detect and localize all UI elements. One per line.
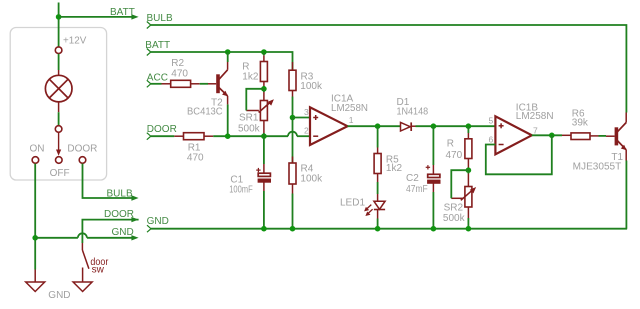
resistor R5 [374, 126, 381, 182]
node R5 top [375, 123, 381, 129]
wire IC1B feedback [486, 135, 552, 174]
node GND SR2 [466, 226, 472, 232]
svg-text:470: 470 [171, 69, 188, 80]
wire R6 to T1 base [590, 135, 615, 137]
node BATT top junction [56, 14, 62, 20]
node GND LED1 [375, 226, 381, 232]
wire BATT top vertical [58, 3, 60, 47]
wire IC1B output [532, 134, 562, 136]
svg-text:C2: C2 [406, 173, 419, 184]
wire GND bus [151, 228, 627, 230]
svg-text:BC413C: BC413C [187, 107, 223, 118]
node R470 / SR2 wiper [466, 167, 472, 173]
door switch S2 [82, 243, 89, 282]
diode D1 [401, 122, 416, 131]
switch contact DOOR [79, 157, 86, 164]
DOOR net connector [147, 133, 151, 140]
trimmer SR2 [451, 170, 476, 229]
wire R1 to op-amp pin2 with hop [204, 132, 310, 137]
resistor R6 [571, 133, 590, 140]
wire ACC to R2 [151, 83, 162, 85]
svg-text:100k: 100k [300, 81, 323, 92]
svg-text:ACC: ACC [147, 73, 168, 84]
capacitor C2 [426, 126, 441, 229]
svg-text:2: 2 [304, 126, 309, 136]
wire ON contact to ground [34, 164, 36, 270]
node GND R4 [290, 226, 296, 232]
resistor R1 [184, 133, 205, 140]
switch contact ON [32, 157, 39, 164]
svg-text:LM258N: LM258N [331, 103, 368, 114]
BATT net arrow [131, 14, 138, 19]
ground symbol door switch [73, 282, 92, 292]
node T2 emitter / DOOR [225, 133, 231, 139]
wire DOOR contact to BULB connector [83, 164, 133, 198]
node BATT/R 1k2 [261, 49, 267, 55]
node GND left junction [32, 235, 38, 241]
ACC net connector [147, 80, 151, 87]
GND net arrow left [131, 235, 138, 240]
door sw label [90, 257, 108, 275]
svg-text:GND: GND [147, 216, 169, 227]
svg-text:100mF: 100mF [229, 185, 253, 196]
node BATT/T2 collector [225, 49, 231, 55]
GND bus net connector [147, 225, 151, 232]
capacitor C1 [256, 136, 271, 229]
wire R2 to T2 base [191, 83, 217, 85]
resistor R 1k2 [260, 52, 267, 89]
svg-text:BATT: BATT [145, 40, 170, 51]
svg-text:500k: 500k [443, 213, 466, 224]
wire BATT top horizontal [59, 16, 133, 18]
node GND C2 [431, 226, 437, 232]
svg-text:GND: GND [112, 227, 134, 238]
wire SR2 wiper bracket [451, 170, 468, 198]
wire pin3 [293, 117, 311, 119]
svg-text:470: 470 [446, 150, 463, 161]
resistor R2 [171, 80, 191, 87]
BULB net arrow left [131, 195, 138, 200]
svg-text:3: 3 [304, 107, 309, 117]
svg-text:100k: 100k [300, 174, 323, 185]
svg-text:GND: GND [48, 290, 70, 301]
trimmer SR1 [246, 89, 274, 136]
svg-text:39k: 39k [572, 117, 589, 128]
transistor T1 [616, 113, 626, 161]
pin circle +12V [55, 47, 62, 54]
pin circle lamp bottom [55, 126, 62, 133]
svg-text:LED1: LED1 [340, 198, 365, 209]
node GND C1 [261, 226, 267, 232]
svg-text:ON: ON [30, 144, 45, 155]
wire SR1 wiper bracket [246, 89, 264, 111]
switch contact OFF [56, 157, 63, 164]
op-amp IC1A [310, 107, 348, 145]
BULB bus net connector [147, 22, 151, 29]
svg-text:BATT: BATT [110, 7, 135, 18]
svg-text:DOOR: DOOR [147, 124, 177, 135]
svg-text:R: R [447, 138, 454, 149]
svg-text:SR2: SR2 [444, 202, 464, 213]
wire T2 emitter to DOOR net [227, 104, 229, 136]
svg-text:500k: 500k [238, 123, 261, 134]
LED1 [364, 182, 385, 229]
svg-text:+12V: +12V [63, 36, 87, 47]
svg-text:1N4148: 1N4148 [397, 107, 429, 118]
ground symbol left [26, 270, 45, 292]
wire R3/R4 vertical [292, 118, 294, 164]
wire BATT bus [151, 52, 293, 70]
resistor R4 [289, 157, 296, 229]
BATT bus net connector [147, 49, 151, 56]
svg-text:BULB: BULB [147, 13, 173, 24]
wire GND left horizontal with hop [35, 233, 132, 238]
svg-text:7: 7 [533, 126, 538, 136]
svg-text:1: 1 [349, 115, 354, 125]
node SR1 bottom / C1 [261, 133, 267, 139]
op-amp IC1B [495, 116, 531, 154]
svg-text:BULB: BULB [107, 189, 133, 200]
wire pin to lamp [58, 54, 60, 75]
svg-text:MJE3055T: MJE3055T [573, 161, 622, 172]
svg-text:6: 6 [489, 134, 494, 144]
node R1k2 / SR1 wiper [261, 86, 267, 92]
lamp LA1 (bulb) [45, 75, 72, 102]
svg-text:47mF: 47mF [406, 184, 428, 195]
node C2 top [431, 123, 437, 129]
wire T1 emitter to GND bus [625, 161, 627, 229]
svg-text:470: 470 [187, 153, 204, 164]
svg-text:DOOR: DOOR [104, 209, 134, 220]
svg-text:SR1: SR1 [239, 112, 259, 123]
svg-text:5: 5 [489, 116, 494, 126]
svg-text:1k2: 1k2 [242, 71, 259, 82]
svg-text:sw: sw [92, 265, 105, 276]
svg-text:1k2: 1k2 [386, 163, 403, 174]
node IC1B output [549, 133, 555, 139]
enclosure box (car lamp unit) [10, 28, 106, 181]
transistor T2 [218, 62, 228, 104]
wire DOOR net left [82, 220, 138, 243]
node op-amp pin3 [290, 115, 296, 121]
svg-text:R2: R2 [171, 58, 184, 69]
wire lamp to pin [58, 102, 60, 126]
wire BULB bus [151, 25, 627, 113]
resistor R3 [289, 62, 296, 118]
switch S1 wiper arrow [56, 133, 61, 156]
wire IC1A output [348, 125, 401, 127]
DOOR net arrow left [131, 217, 138, 222]
svg-text:OFF: OFF [50, 168, 70, 179]
node R 470 top [466, 123, 472, 129]
resistor R 470 [465, 126, 472, 170]
wire DOOR to R1 [151, 135, 175, 137]
svg-text:LM258N: LM258N [516, 111, 554, 122]
wire D1 to IC1B pin5 [416, 125, 496, 127]
wire T2 collector to BATT [227, 52, 229, 62]
svg-text:DOOR: DOOR [67, 144, 97, 155]
